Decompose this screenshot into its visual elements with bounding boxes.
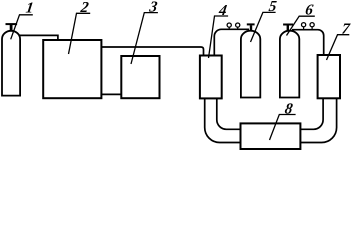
gas cylinder 5 [241,31,260,98]
gauge circle C [302,23,306,27]
gas cylinder 1 [2,31,20,96]
label 4 digit [217,2,228,19]
label 3 leader [131,13,158,64]
gauge circle B stem [237,27,239,29]
valve handle T-bar on cylinder 5 [247,23,255,25]
label 2 digit [79,0,90,16]
column 4 [200,56,222,99]
label 6 digit [304,1,314,18]
valve handle T-bar on cylinder 6 [283,24,293,26]
label 5 leader [251,12,276,42]
gauge circle B [236,23,240,27]
valve stem on cylinder 5 [250,25,252,31]
pipe cylinder6 to column7 [292,30,324,55]
label 1 digit [25,0,35,16]
pipe cylinder1 to block2 [19,35,58,39]
gauge circle A stem [228,27,230,29]
label 3 digit [147,0,158,15]
svg-text:1: 1 [25,0,35,16]
column 7 [318,55,340,98]
riser pipe column4 to cylinder5 [214,29,249,55]
double pipe column4 to tank8, outer line [205,98,241,142]
double pipe tank8 to column7, inner line [300,98,323,129]
gauge circle A [227,23,231,27]
block 2 [43,40,101,98]
valve stem on cylinder 6 [287,25,289,31]
gas cylinder 6 [280,31,299,98]
valve stem on cylinder 1 [10,25,13,32]
label 5 digit [268,0,278,15]
label 8 leader [270,115,296,141]
label 2 leader [69,13,91,54]
gauge circle C stem [303,27,305,30]
label 8 digit [284,100,294,117]
label 7 digit [341,21,352,38]
tank 8 [241,123,301,149]
block 3 [121,56,159,98]
gauge circle D stem [311,27,313,30]
double pipe tank8 to column7, outer line [300,98,336,142]
label 7 leader [327,35,350,60]
label 4 leader [209,16,229,58]
pipe block2 to block3 [101,93,121,95]
double pipe column4 to tank8, inner line [217,98,241,129]
label 1 leader [11,15,33,40]
valve handle T-bar on cylinder 1 [6,23,18,25]
svg-text:7: 7 [341,21,352,38]
svg-text:5: 5 [268,0,278,15]
label 6 leader [287,16,315,35]
pipe block2 to column4 [101,47,203,55]
gauge circle D [310,23,314,27]
